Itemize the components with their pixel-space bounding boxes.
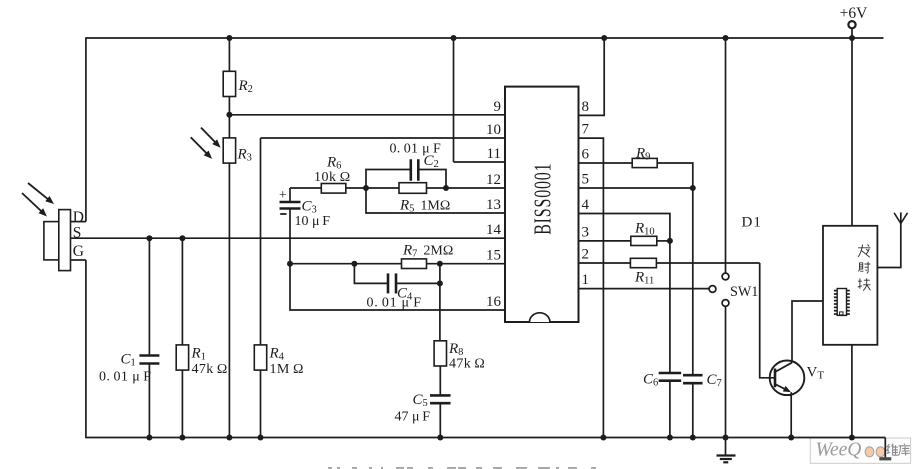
svg-text:S: S [73, 225, 82, 242]
svg-text:14: 14 [486, 222, 502, 238]
svg-text:15: 15 [486, 248, 501, 264]
svg-text:0. 01 μ F: 0. 01 μ F [367, 296, 422, 311]
svg-text:5: 5 [582, 172, 590, 188]
svg-text:G: G [73, 243, 84, 260]
svg-text:7: 7 [582, 122, 590, 138]
svg-text:11: 11 [487, 146, 501, 162]
svg-text:R72MΩ: R72MΩ [402, 243, 453, 260]
svg-text:4: 4 [582, 197, 590, 213]
svg-text:9: 9 [494, 99, 502, 115]
svg-text:3: 3 [582, 224, 590, 240]
svg-text:D1: D1 [742, 215, 762, 231]
svg-text:+6V: +6V [840, 5, 868, 22]
svg-text:13: 13 [486, 197, 501, 213]
svg-text:10 μ F: 10 μ F [295, 214, 331, 229]
svg-text:SW1: SW1 [730, 284, 758, 300]
svg-text:16: 16 [486, 294, 502, 310]
svg-text:47k Ω: 47k Ω [449, 357, 485, 372]
svg-text:2: 2 [582, 247, 590, 263]
svg-text:10k Ω: 10k Ω [314, 170, 351, 185]
svg-text:+: + [279, 187, 287, 202]
svg-text:BISS0001: BISS0001 [528, 163, 557, 235]
svg-text:8: 8 [582, 99, 590, 115]
svg-text:10: 10 [486, 122, 501, 138]
svg-text:1: 1 [582, 272, 590, 288]
svg-text:R51MΩ: R51MΩ [399, 198, 450, 215]
svg-text:WeeQ: WeeQ [816, 440, 862, 461]
svg-text:0. 01 μ F: 0. 01 μ F [99, 370, 152, 385]
svg-text:12: 12 [486, 172, 501, 188]
svg-text:D: D [73, 209, 84, 226]
svg-text:47k Ω: 47k Ω [192, 362, 228, 377]
svg-text:1M Ω: 1M Ω [270, 362, 304, 377]
svg-text:6: 6 [582, 147, 590, 163]
svg-text:47 μ F: 47 μ F [395, 410, 431, 425]
